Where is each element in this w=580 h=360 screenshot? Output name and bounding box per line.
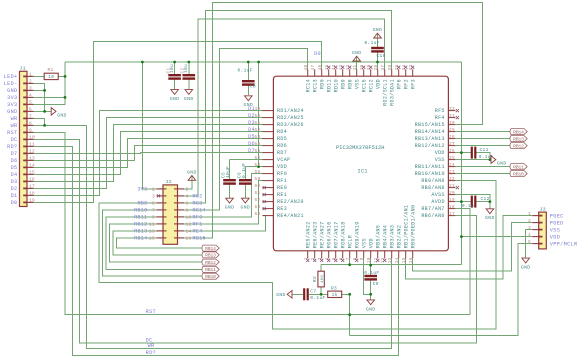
svg-text:41: 41 xyxy=(353,65,358,71)
svg-text:1: 1 xyxy=(152,187,155,193)
wire WR net to RB3 pin13 xyxy=(45,125,392,348)
junction dots xyxy=(64,75,67,78)
J1 pin 19 xyxy=(27,201,34,203)
wire PGED J3 pin2 to RB0 pin16 xyxy=(413,223,533,272)
svg-text:RB12: RB12 xyxy=(513,143,524,149)
svg-text:D6: D6 xyxy=(248,141,255,147)
IC1 right pin 19 xyxy=(448,201,455,203)
svg-text:RST: RST xyxy=(7,130,17,136)
wire C11 right lead to VSS xyxy=(476,153,490,160)
wire VSS pin41 to GND xyxy=(356,56,358,69)
svg-text:14: 14 xyxy=(29,163,35,169)
IC1 left pin 50 xyxy=(262,117,273,119)
svg-text:4: 4 xyxy=(528,232,531,238)
svg-text:D1: D1 xyxy=(11,193,18,199)
svg-text:J1: J1 xyxy=(20,66,26,72)
wire J2 pin2 to GND xyxy=(184,176,192,189)
wire VPP row to J3 pin5 xyxy=(350,244,533,336)
svg-text:10u: 10u xyxy=(170,64,175,73)
svg-text:RB12: RB12 xyxy=(205,260,216,266)
svg-text:10: 10 xyxy=(29,135,35,141)
IC1 top pin 37 xyxy=(384,69,386,76)
svg-text:3V3: 3V3 xyxy=(7,95,17,101)
svg-text:D4: D4 xyxy=(11,172,18,178)
svg-text:RB11: RB11 xyxy=(513,164,524,170)
svg-text:C7: C7 xyxy=(310,288,316,294)
svg-text:RD2/AN25: RD2/AN25 xyxy=(277,115,304,121)
svg-text:9: 9 xyxy=(152,215,155,221)
svg-text:D0: D0 xyxy=(11,200,18,206)
svg-text:RE7/AN27: RE7/AN27 xyxy=(319,221,325,248)
svg-text:RB15/AN15: RB15/AN15 xyxy=(415,122,445,128)
wire RB14 J2 to lower run xyxy=(117,238,202,248)
wire RB14 flag wire pin29 xyxy=(455,131,509,133)
svg-text:17: 17 xyxy=(29,184,35,190)
resistor R3 xyxy=(328,291,342,297)
wire C6 leads xyxy=(244,167,246,179)
wire RB13 flag wire pin28 xyxy=(455,138,509,140)
svg-text:32: 32 xyxy=(449,107,455,112)
svg-text:12: 12 xyxy=(29,149,35,155)
svg-text:AVDD: AVDD xyxy=(431,199,444,205)
wire D7 J1 pin12 to RD7 pin55 xyxy=(34,152,263,155)
J1 pin 11 xyxy=(27,145,34,147)
svg-text:GND: GND xyxy=(373,27,383,33)
svg-text:55: 55 xyxy=(255,149,261,154)
wire J3 pin3 VSS to GND xyxy=(526,230,533,259)
svg-text:RC15: RC15 xyxy=(361,79,367,92)
IC1 left pin 52 xyxy=(262,131,273,133)
wire RG2 loop J2 pin4 to pin37 xyxy=(184,19,385,196)
svg-text:D7: D7 xyxy=(248,148,255,154)
J3 pin 2 xyxy=(532,222,539,224)
svg-text:30: 30 xyxy=(449,121,455,126)
wire J1 pin3 GND xyxy=(34,89,45,91)
IC1 bottom pin 13 xyxy=(391,251,393,259)
IC1 top pin 41 xyxy=(356,69,358,76)
svg-text:WR: WR xyxy=(11,116,18,122)
wire D3 J1 to RD3 xyxy=(34,125,263,182)
IC1 top pin 43 xyxy=(342,69,344,76)
svg-text:2: 2 xyxy=(186,187,189,193)
svg-text:RF6: RF6 xyxy=(396,79,402,89)
svg-text:RF2: RF2 xyxy=(403,79,409,89)
J3 pin 4 xyxy=(532,236,539,238)
IC1 left pin 62 xyxy=(262,201,273,203)
svg-text:10uF: 10uF xyxy=(225,166,231,178)
IC1 left pin 61 xyxy=(262,194,273,196)
svg-text:3: 3 xyxy=(152,194,155,200)
IC1 bottom pin 14 xyxy=(398,251,400,259)
svg-text:RF1: RF1 xyxy=(193,222,203,228)
svg-text:14: 14 xyxy=(186,229,192,235)
svg-text:RB10/AN10: RB10/AN10 xyxy=(415,171,445,177)
J1 pin 15 xyxy=(27,173,34,175)
svg-text:RD1/AN24: RD1/AN24 xyxy=(277,108,304,114)
svg-text:15: 15 xyxy=(402,257,407,263)
svg-text:RE1: RE1 xyxy=(277,192,287,198)
svg-text:RD6: RD6 xyxy=(277,143,287,149)
J2 pin3 no-connect xyxy=(157,194,160,197)
svg-text:15: 15 xyxy=(149,236,155,242)
wire 3V3 vertical right drop xyxy=(460,62,462,265)
IC1 top pin 47 xyxy=(314,69,316,76)
wire C7 right lead to node xyxy=(309,293,321,295)
wire C9 top lead VDD pin10 xyxy=(370,258,372,275)
IC1 bottom pin 5 xyxy=(335,251,337,259)
svg-text:25: 25 xyxy=(449,156,455,161)
wire J1 pin1 to R1 xyxy=(34,75,45,77)
wire MCLR row pin7 to 3V3 drop xyxy=(349,258,351,264)
J1 pin 12 xyxy=(27,152,34,154)
J3 pin 5 xyxy=(532,243,539,245)
svg-text:WR: WR xyxy=(148,343,155,349)
svg-text:RB4/AN4: RB4/AN4 xyxy=(382,225,388,248)
wire RB13 J2 to lower run xyxy=(113,231,202,255)
capacitor C1 xyxy=(168,74,181,76)
svg-text:LED+: LED+ xyxy=(4,74,18,80)
J3 pin 3 xyxy=(532,229,539,231)
svg-text:20: 20 xyxy=(449,191,455,196)
svg-text:RE6/AN23: RE6/AN23 xyxy=(312,221,318,248)
svg-text:RG3/SDA1: RG3/SDA1 xyxy=(389,79,395,106)
svg-text:VPP/MCLR: VPP/MCLR xyxy=(550,241,578,247)
svg-text:RF3: RF3 xyxy=(410,79,416,89)
svg-text:RB7/AN7: RB7/AN7 xyxy=(421,206,444,212)
J1 pin 16 xyxy=(27,180,34,182)
wire RC14 loop J2 pin8 to pin48 xyxy=(184,49,308,210)
resistor R2 MCLR xyxy=(318,271,324,287)
svg-text:10u: 10u xyxy=(184,64,189,73)
svg-text:13: 13 xyxy=(149,229,155,235)
svg-text:RB11: RB11 xyxy=(134,215,147,221)
IC1 bottom pin 11 xyxy=(377,251,379,259)
svg-text:RF0: RF0 xyxy=(193,215,203,221)
svg-text:VDD: VDD xyxy=(368,238,374,248)
IC1 top pin 45 xyxy=(328,69,330,76)
svg-text:RD5: RD5 xyxy=(277,136,287,142)
svg-text:6: 6 xyxy=(186,201,189,207)
svg-text:RC12: RC12 xyxy=(368,79,374,92)
IC1 top pin 44 xyxy=(335,69,337,76)
svg-text:63: 63 xyxy=(255,205,261,210)
IC1 right pin 24 xyxy=(448,166,455,168)
svg-text:D4: D4 xyxy=(248,127,255,133)
wire AVDD pin19 to 3V3 and C12 xyxy=(455,201,471,203)
svg-text:RB3/AN3: RB3/AN3 xyxy=(389,225,395,248)
IC1 bottom pin 10 xyxy=(370,251,372,259)
wire R2 top lead xyxy=(320,265,322,272)
IC1 bottom pin 3 xyxy=(321,251,323,259)
wire D4 J1 to RD4 xyxy=(34,132,263,175)
svg-text:38: 38 xyxy=(374,65,379,71)
IC1 right pin 32 xyxy=(448,110,455,112)
svg-text:21: 21 xyxy=(449,184,455,189)
IC1 right pin 23 xyxy=(448,173,455,175)
wire RF1 pin59 to J2 pin12 xyxy=(184,181,262,224)
net flag RB11 xyxy=(202,266,219,272)
svg-text:3: 3 xyxy=(528,225,531,231)
svg-text:7: 7 xyxy=(152,208,155,214)
wire R1 to 3V3 node xyxy=(59,75,66,77)
svg-text:3: 3 xyxy=(29,86,32,92)
svg-text:RB8/AN8: RB8/AN8 xyxy=(421,185,444,191)
IC1 bottom pin 4 xyxy=(328,251,330,259)
wire VDD pin26 to 3V3 drop and C11 xyxy=(455,152,471,154)
svg-text:D3: D3 xyxy=(248,120,255,126)
svg-text:0.1uF: 0.1uF xyxy=(365,40,380,46)
svg-text:C8: C8 xyxy=(250,84,256,89)
wire RB3 pin13 to 3V3 corner xyxy=(391,258,393,264)
svg-text:VDD: VDD xyxy=(435,150,445,156)
svg-text:23: 23 xyxy=(449,170,455,175)
IC1 right pin 29 xyxy=(448,131,455,133)
svg-text:47: 47 xyxy=(311,65,316,71)
svg-text:48: 48 xyxy=(304,65,309,71)
svg-text:13: 13 xyxy=(29,156,35,162)
svg-text:18: 18 xyxy=(449,205,455,210)
svg-text:28: 28 xyxy=(449,135,455,140)
svg-text:RB14/AN14: RB14/AN14 xyxy=(415,129,445,135)
capacitor C7 xyxy=(303,288,305,300)
IC1 top pin 46 xyxy=(321,69,323,76)
svg-text:D3: D3 xyxy=(11,179,18,185)
IC1 right pin 21 xyxy=(448,187,455,189)
svg-text:J3: J3 xyxy=(540,206,546,212)
svg-text:RD0: RD0 xyxy=(319,79,325,89)
svg-text:46: 46 xyxy=(318,65,323,71)
net flag RB10 xyxy=(202,273,219,279)
svg-text:0.1uF: 0.1uF xyxy=(241,163,247,178)
svg-text:16: 16 xyxy=(186,236,192,242)
svg-text:D0: D0 xyxy=(314,51,321,57)
wire J3 pin4 VDD to 3V3 drop xyxy=(461,236,532,238)
svg-text:61: 61 xyxy=(255,191,261,196)
IC1 left pin 54 xyxy=(262,145,273,147)
svg-text:10: 10 xyxy=(367,257,372,263)
IC1 bottom pin 1 xyxy=(307,251,309,259)
svg-text:GND: GND xyxy=(7,109,17,115)
wire RE4 pin64 to J2 pin14 xyxy=(184,216,266,231)
J1 pin 18 xyxy=(27,194,34,196)
svg-text:VDD: VDD xyxy=(375,79,381,89)
wire 3V3 rail drop to R1/J1 pins 4-5 xyxy=(34,62,66,104)
J1 pin 6 xyxy=(27,110,34,112)
IC1 top pin 38 xyxy=(377,69,379,76)
svg-text:RB11: RB11 xyxy=(205,267,216,273)
capacitor C12 xyxy=(471,196,473,208)
svg-text:RB11/AN11: RB11/AN11 xyxy=(415,164,445,170)
svg-text:AVSS: AVSS xyxy=(431,192,444,198)
svg-text:RB10: RB10 xyxy=(205,274,216,280)
svg-text:29: 29 xyxy=(449,128,455,133)
svg-text:RF4: RF4 xyxy=(435,115,445,121)
svg-text:GND: GND xyxy=(276,292,286,298)
wire PGEC J3 pin1 to RB1 pin15 xyxy=(406,216,533,280)
svg-text:RB13/AN13: RB13/AN13 xyxy=(415,136,445,142)
svg-text:RB14: RB14 xyxy=(205,246,216,252)
svg-text:J2: J2 xyxy=(166,179,172,185)
svg-text:RF5: RF5 xyxy=(435,108,445,114)
svg-text:16: 16 xyxy=(29,177,35,183)
svg-text:RB10: RB10 xyxy=(134,208,147,214)
svg-text:2: 2 xyxy=(528,218,531,224)
svg-text:13: 13 xyxy=(388,257,393,263)
wire J1 pin2 LED- to ground bus xyxy=(34,83,45,111)
IC1 bottom pin 16 xyxy=(412,251,414,259)
svg-text:RB12/AN12: RB12/AN12 xyxy=(415,143,445,149)
IC1 left pin 55 xyxy=(262,152,273,154)
svg-text:D7: D7 xyxy=(11,151,18,157)
svg-text:19: 19 xyxy=(449,198,455,203)
svg-text:5: 5 xyxy=(29,100,32,106)
wire RB10 J2 to lower run xyxy=(103,210,202,276)
svg-text:RF1: RF1 xyxy=(277,178,287,184)
wire RB15 loop J2 pin16 to pin30 xyxy=(184,3,483,238)
svg-text:GND: GND xyxy=(352,50,362,56)
IC1 bottom pin 12 xyxy=(384,251,386,259)
svg-text:14: 14 xyxy=(395,257,400,263)
IC1 bottom pin 15 xyxy=(405,251,407,259)
svg-text:0.1uF: 0.1uF xyxy=(364,270,379,276)
svg-text:1: 1 xyxy=(528,211,531,217)
wire RB11 J2 to lower run xyxy=(106,217,202,270)
wire D6 J1 to RD6 xyxy=(34,146,263,161)
svg-text:RD7: RD7 xyxy=(277,150,287,156)
svg-text:RB9: RB9 xyxy=(137,201,147,207)
IC1 right pin 30 xyxy=(448,124,455,126)
svg-text:RB0/PGED1/AN0: RB0/PGED1/AN0 xyxy=(410,205,416,249)
svg-text:RG8/AN18: RG8/AN18 xyxy=(340,221,346,248)
wire R3 to MCLR vertical xyxy=(342,293,350,295)
svg-text:57: 57 xyxy=(255,163,261,168)
wire VDD pin38 / C10 leads xyxy=(377,33,379,47)
wire DC net J1 pin10 to RB6 xyxy=(34,139,477,342)
wire J1 WR pins 7-8 join xyxy=(34,118,45,125)
svg-text:C9: C9 xyxy=(373,281,379,287)
IC1 top pin 39 xyxy=(370,69,372,76)
net flag RB11 xyxy=(510,164,527,170)
svg-text:RD3/AN26: RD3/AN26 xyxy=(277,122,304,128)
op-amp IC1 PIC32MX370F512H body xyxy=(273,76,448,251)
capacitor C5 VCAP xyxy=(223,179,236,181)
J1 pin 14 xyxy=(27,166,34,168)
svg-text:D5: D5 xyxy=(248,134,255,140)
svg-text:PGEC: PGEC xyxy=(550,213,564,219)
connector J1 xyxy=(20,71,28,206)
IC1 top pin 48 xyxy=(307,69,309,76)
wire VCAP pin56 to C5 xyxy=(230,159,263,161)
IC1 right pin 26 xyxy=(448,152,455,154)
svg-text:1k: 1k xyxy=(332,292,338,298)
wire J1 pin4 3V3 xyxy=(34,96,66,98)
svg-text:GND: GND xyxy=(241,205,251,211)
wire RB12 flag wire pin27 xyxy=(455,145,509,147)
wire RB9 J2 to lower run xyxy=(99,181,496,329)
svg-text:RF0: RF0 xyxy=(277,171,287,177)
svg-text:RD8: RD8 xyxy=(347,79,353,89)
svg-text:RD11: RD11 xyxy=(326,79,332,92)
wire RF0 pin58 to J2 pin10 xyxy=(184,174,262,217)
IC1 right pin 22 xyxy=(448,180,455,182)
wire RB11 flag wire pin24 xyxy=(455,166,509,168)
svg-text:31: 31 xyxy=(449,114,455,119)
net flag RB12 xyxy=(510,143,527,149)
svg-text:RG7/AN17: RG7/AN17 xyxy=(333,221,339,248)
svg-text:24: 24 xyxy=(449,163,455,168)
IC1 right pin 17 xyxy=(448,215,455,217)
svg-text:RE4: RE4 xyxy=(193,229,203,235)
IC1 right pin 20 xyxy=(448,194,455,196)
svg-text:D6: D6 xyxy=(11,158,18,164)
svg-text:100: 100 xyxy=(321,275,325,284)
IC1 bottom pin 9 xyxy=(363,251,365,259)
svg-text:VDD: VDD xyxy=(277,164,287,170)
wire C5 leads xyxy=(229,160,231,179)
svg-text:1: 1 xyxy=(29,72,32,78)
svg-text:56: 56 xyxy=(255,156,261,161)
wire J2 pin1 3V3 to rail xyxy=(142,62,156,189)
J1 pin 8 xyxy=(27,124,34,126)
svg-text:IC1: IC1 xyxy=(358,168,368,174)
svg-text:VDD: VDD xyxy=(550,234,560,240)
svg-text:11: 11 xyxy=(149,222,155,228)
svg-text:5: 5 xyxy=(152,201,155,207)
wire D0 J1 pin19 to RD0 pin46 xyxy=(34,42,322,203)
wire C7 left lead to GND xyxy=(292,293,303,295)
IC1 right pin 27 xyxy=(448,145,455,147)
J2 pins 7/8 xyxy=(157,209,167,211)
IC1 right pin 25 xyxy=(448,159,455,161)
svg-text:R3: R3 xyxy=(331,285,337,291)
svg-text:RE2/AN20: RE2/AN20 xyxy=(277,199,304,205)
svg-text:GND: GND xyxy=(366,306,376,312)
wire RB12 J2 to lower run xyxy=(110,224,202,262)
svg-text:MCLR: MCLR xyxy=(347,235,353,248)
wire R2 bottom lead xyxy=(320,287,322,294)
svg-text:C12: C12 xyxy=(481,196,490,202)
IC1 top pin 34 xyxy=(405,69,407,76)
svg-text:RG2: RG2 xyxy=(193,194,203,200)
svg-text:VSS: VSS xyxy=(354,79,360,89)
svg-text:0.1uF: 0.1uF xyxy=(310,295,325,301)
svg-text:18: 18 xyxy=(29,191,35,197)
wire 3V3 drop to VDD57 xyxy=(258,62,260,167)
svg-text:3V3: 3V3 xyxy=(137,187,147,193)
svg-text:RG6/AN16: RG6/AN16 xyxy=(326,221,332,248)
svg-text:GND: GND xyxy=(497,161,507,167)
svg-text:RD10: RD10 xyxy=(333,79,339,92)
svg-text:19: 19 xyxy=(29,198,35,204)
wire C12 right lead xyxy=(476,201,490,203)
IC1 left pin 64 xyxy=(262,215,273,217)
svg-text:6: 6 xyxy=(29,107,32,113)
IC1 left pin 51 xyxy=(262,124,273,126)
wire RB10 flag wire pin23 xyxy=(455,173,509,175)
svg-text:3V3: 3V3 xyxy=(7,102,17,108)
wire VSS pin25 to GND xyxy=(455,159,490,161)
wire AVSS pin20 down xyxy=(455,195,490,209)
svg-text:8: 8 xyxy=(29,121,32,127)
svg-text:53: 53 xyxy=(255,135,261,140)
svg-text:RB12: RB12 xyxy=(134,222,147,228)
svg-text:RG2/SCL1: RG2/SCL1 xyxy=(382,79,388,106)
svg-text:0.1u: 0.1u xyxy=(462,203,474,209)
IC1 left pin 57 xyxy=(262,166,273,168)
svg-text:RD4: RD4 xyxy=(277,129,287,135)
svg-text:0.1uF: 0.1uF xyxy=(238,68,253,74)
capacitor C6 xyxy=(239,179,252,181)
